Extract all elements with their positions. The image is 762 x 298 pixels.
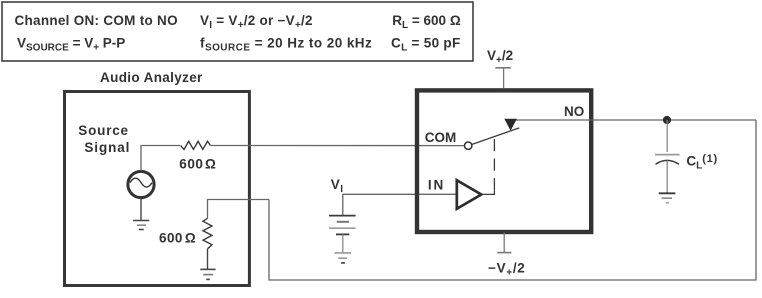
ground (RL): [200, 269, 215, 279]
supply terminal -V+/2: [497, 232, 511, 252]
wire: battery to ground: [342, 234, 344, 253]
svg-text:COM: COM: [425, 130, 457, 145]
wire: junction to CL: [666, 120, 668, 152]
ground (CL): [659, 193, 676, 203]
wire: resistor to COM: [210, 145, 464, 147]
svg-text:IN: IN: [428, 177, 445, 192]
audio analyzer box: [65, 92, 250, 286]
NO contact triangle: [504, 119, 517, 131]
wire: CL to ground: [666, 161, 668, 193]
wire: source bottom to ground: [140, 199, 142, 221]
wire: source top to resistor: [141, 146, 180, 171]
node: NO output junction: [663, 116, 671, 124]
resistor R1 600 ohm (series): [181, 141, 211, 149]
svg-text:600Ω: 600Ω: [179, 157, 216, 172]
svg-text:Source: Source: [78, 123, 129, 138]
wire: RL top elbow to feedback node: [208, 200, 270, 219]
svg-text:Signal: Signal: [84, 140, 130, 155]
COM contact circle: [465, 142, 472, 149]
svg-text:600Ω: 600Ω: [159, 231, 196, 246]
switch IC box U1: [417, 90, 591, 232]
supply terminal V+/2: [495, 68, 511, 89]
wire: buffer output link: [481, 190, 494, 194]
wire: VI to IN: [343, 194, 457, 215]
switch lever: [472, 128, 520, 145]
wire: RL bottom to ground: [207, 249, 209, 270]
ground (battery): [334, 253, 351, 263]
ground (source): [133, 221, 149, 230]
wire: feedback from RL to NO output: [269, 120, 756, 280]
battery VI: [329, 216, 356, 235]
buffer driver (IN): [457, 180, 482, 209]
svg-text:NO: NO: [564, 104, 584, 119]
source V1 (sine generator): [128, 171, 154, 197]
resistor RL 600 ohm (load, vertical): [203, 218, 212, 249]
dashed control line: [493, 139, 495, 190]
capacitor CL: [655, 155, 680, 165]
parameter table box: [2, 2, 473, 61]
wire: NO output: [511, 119, 756, 121]
svg-text:Channel ON: COM to NO: Channel ON: COM to NO: [15, 13, 178, 28]
svg-text:Audio Analyzer: Audio Analyzer: [100, 70, 203, 85]
